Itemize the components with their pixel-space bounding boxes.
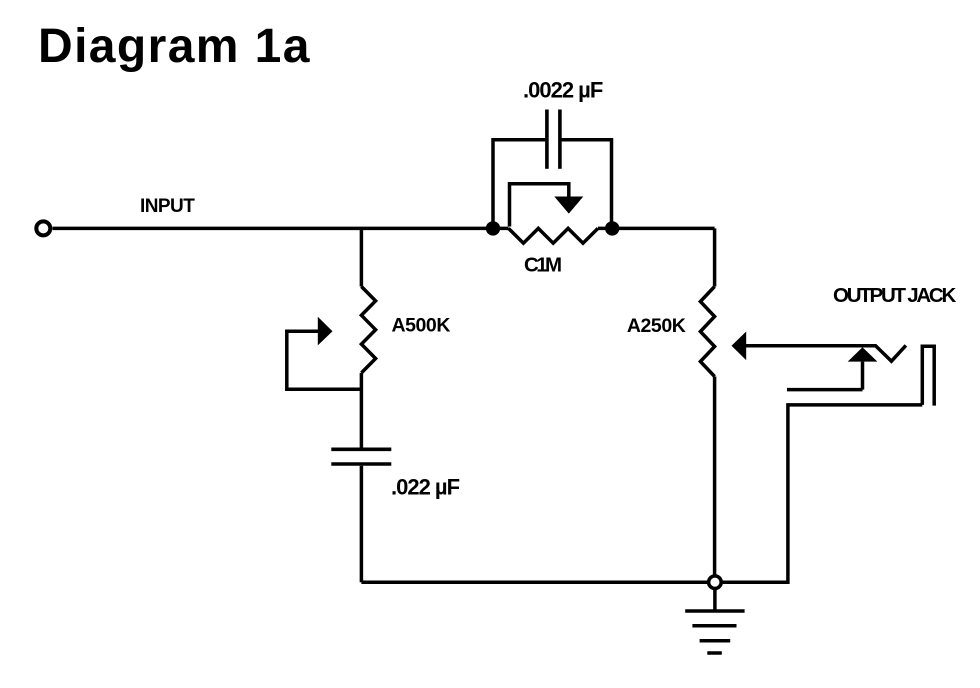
svg-text:A500K: A500K xyxy=(392,315,451,337)
jack hot-lead arrowhead (pointing up) xyxy=(848,347,878,361)
ground symbol bars xyxy=(685,611,744,653)
wire: A250K to ground node xyxy=(713,377,717,575)
label INPUT xyxy=(140,196,195,217)
svg-text:INPUT: INPUT xyxy=(140,196,195,217)
A500K wiper arrowhead xyxy=(318,317,333,346)
A250K wiper arrowhead xyxy=(732,332,747,361)
label .022 uF value xyxy=(391,475,460,500)
label C1M xyxy=(524,254,561,277)
wire: A500K to .022 uF capacitor xyxy=(360,373,364,448)
A500K wiper loop wire xyxy=(287,331,361,389)
label OUTPUT JACK xyxy=(833,284,956,307)
label .0022 uF value xyxy=(523,78,603,103)
C1M wiper arrowhead xyxy=(554,197,583,214)
svg-text:Diagram 1a: Diagram 1a xyxy=(38,20,311,73)
potentiometer C1M (zigzag element) xyxy=(509,228,598,243)
wire: capacitor loop left branch xyxy=(493,140,545,229)
wire: A250K branch down from top wire xyxy=(713,228,717,286)
wire: bottom ground bus to ground node xyxy=(361,580,707,584)
node: C1M right junction dot xyxy=(605,221,619,235)
label A500K xyxy=(392,315,451,337)
node: C1M left junction dot xyxy=(486,221,500,235)
jack hot-lead stub wire xyxy=(787,388,863,392)
output jack sleeve xyxy=(922,346,934,405)
wire: input line to C1M left terminal xyxy=(53,227,509,231)
input terminal (open circle) xyxy=(36,221,50,235)
svg-text:A250K: A250K xyxy=(627,315,686,337)
potentiometer A500K (zigzag element) xyxy=(361,287,375,373)
wire: ground node to output jack sleeve xyxy=(723,405,923,582)
title "Diagram 1a" xyxy=(38,20,311,73)
svg-text:.0022 µF: .0022 µF xyxy=(523,78,603,103)
capacitor .0022 uF (plates) xyxy=(547,110,560,169)
wire: C1M right terminal to top-right corner xyxy=(598,227,715,231)
svg-text:OUTPUT JACK: OUTPUT JACK xyxy=(833,284,956,307)
ground node (open circle) xyxy=(709,576,722,589)
label A250K xyxy=(627,315,686,337)
wire: capacitor loop right branch xyxy=(561,140,611,229)
wire: A250K wiper to jack tip contact (with spring V) xyxy=(746,345,906,361)
C1M wiper loop wire xyxy=(510,184,569,227)
potentiometer A250K (zigzag element) xyxy=(700,287,714,377)
capacitor .022 uF (plates) xyxy=(331,449,391,464)
jack hot-lead stem xyxy=(861,362,865,390)
svg-text:.022 µF: .022 µF xyxy=(391,475,460,500)
ground symbol stem xyxy=(713,589,717,611)
wire: A500K branch from input line xyxy=(360,228,364,286)
svg-text:C1M: C1M xyxy=(524,254,561,277)
wire: .022 uF down to ground bus xyxy=(360,466,364,582)
